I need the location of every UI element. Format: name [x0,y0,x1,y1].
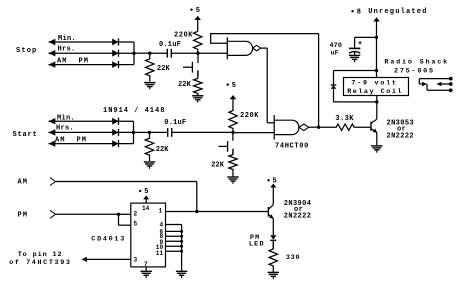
svg-text:2: 2 [134,211,138,218]
label 22K R4 [156,146,170,154]
svg-text:LED: LED [249,241,265,249]
node pin 8 bus junction [180,235,183,238]
svg-text:Unregulated: Unregulated [368,8,427,16]
touch contact stop: plate lead [183,66,192,68]
wire Q1 emitter to ground [376,132,378,146]
transistor Q1 base bar [370,122,372,131]
label 0.1uF C2 [164,119,186,127]
svg-text:1N914 / 4148: 1N914 / 4148 [103,107,165,115]
ground below R8 [268,272,279,279]
wire relay coil bottom lead [376,96,378,102]
connector PM chevron [50,210,56,218]
wire start Min line [49,120,134,122]
svg-text:275-005: 275-005 [394,67,435,75]
label 22K R1 [157,65,171,73]
svg-text:3: 3 [134,257,138,264]
relay coil K1 box [344,78,409,96]
node pin 6 bus junction [180,230,183,233]
ground below R1 [144,83,155,90]
label 2N2222 (Q1) [387,133,414,141]
label 22K R6 [211,162,225,170]
diode D7 relay clamp [331,85,337,89]
touch contact start: lower lead [232,149,234,155]
wire relay bottom [334,101,377,103]
svg-text:Hrs.: Hrs. [58,45,76,53]
wire U1B output to R7 [319,126,336,128]
wire stop Hrs line [49,52,135,54]
svg-text:of 74HCT393: of 74HCT393 [9,259,71,267]
label 2N3904 [284,200,311,208]
resistor R4 22K (start pulldown) [145,132,153,161]
power +5 arrow (Q2) [270,184,276,205]
diode D5 (start Hrs) [112,129,118,136]
label 7-9 volt [351,79,397,87]
node 470uF junction [375,36,378,39]
label or (Q2) [294,206,303,214]
touch contact stop: lower lead [197,70,199,77]
node stop gate input node [196,52,199,55]
wire AM line [56,181,197,183]
node pin 10 bus junction [180,245,183,248]
label Start [13,131,38,139]
label PM input [18,212,28,220]
arrowhead start Hrs input [49,129,56,135]
node Q1 collector junction [375,100,378,103]
label Min. (stop) [58,35,76,43]
wire U1B feedback vertical [318,34,320,128]
svg-text:5: 5 [196,7,200,15]
wire pin 10 to bus [166,245,182,247]
transistor Q1 collector [371,102,377,123]
label Hrs. (start) [56,125,74,133]
node stop bus junction [132,52,135,55]
label Min. (start) [57,114,75,122]
power +8 arrow [373,17,380,21]
wire PM line to pin2 [56,213,131,215]
op-amp U1B NAND output bubble [299,124,309,131]
node start R4 tap [148,131,151,134]
svg-text:22K: 22K [178,81,192,89]
node stop R1 tap [148,52,151,55]
label 1N914 / 4148 [103,107,165,115]
resistor R1 22K (stop pulldown) [146,53,154,81]
svg-text:Start: Start [13,131,38,139]
arrowhead stop AM/PM input [49,61,56,67]
op-amp U1A NAND gate body [227,41,252,55]
capacitor C3 470uF [349,48,360,53]
pin 3 label [134,257,138,264]
node relay contact terminal 3 [449,88,453,92]
svg-text:8: 8 [357,9,361,17]
wire stop input bus [133,42,135,65]
resistor R8 330 [269,240,277,272]
label 74HCT00 [275,142,309,150]
wire start node to U1B input [233,132,274,134]
wire Q2 emitter to LED [272,218,274,235]
label +5 (start) [227,82,236,90]
svg-text:11: 11 [156,250,164,257]
wire C2 to start node [172,131,233,133]
wire R1 node to C1 [150,52,168,54]
label 3.3K R7 [335,115,354,123]
wire pin 9 to bus [166,240,182,242]
power +5 arrow (start pullup) [230,95,237,108]
node relay contact terminal 2 [449,82,453,86]
svg-text:22K: 22K [211,162,225,170]
svg-text:Hrs.: Hrs. [56,125,74,133]
node pin 9 bus junction [180,240,183,243]
svg-text:AM: AM [18,179,28,187]
wire U1B output feedback to U1A input [211,34,319,44]
pin 14 label [142,205,150,212]
pin 9 label [160,239,164,246]
svg-text:220K: 220K [174,32,193,40]
svg-text:uF: uF [331,50,339,58]
ground below R4 [144,162,155,169]
label Relay Coil [347,88,403,96]
label 275-005 [394,67,435,75]
svg-text:0.1uF: 0.1uF [164,119,186,127]
svg-text:Stop: Stop [16,47,37,55]
svg-text:2N2222: 2N2222 [387,133,414,141]
wire start AM/PM line [49,143,134,145]
touch contact start: plate lead [219,145,228,147]
ground below pin bus [176,271,187,278]
label PM LED [249,234,265,249]
pin 5 label [134,221,138,228]
wire diode branch lower [333,89,335,102]
op-amp U1B NAND gate input bar [273,115,275,140]
op-amp U1A NAND output bubble [253,45,261,51]
svg-text:330: 330 [286,254,300,262]
wire pin 11 to bus [166,250,182,252]
wire pin 1 to Q2 base [166,211,269,213]
pin 2 label [134,211,138,218]
transistor Q2 emitter [268,214,273,219]
label +5 (Q2) [267,178,276,186]
svg-text:14: 14 [142,205,150,212]
svg-text:1: 1 [159,208,163,215]
wire pin 3 output [83,258,131,260]
node start gate input node [231,131,234,134]
ground below R6 [227,177,238,184]
wire stop node to U1A input [198,52,227,54]
label 2N2222 (Q2) [284,212,311,220]
resistor R6 22K (start touch bias) [229,149,237,177]
diode D3 (stop AM/PM) [112,61,118,68]
wire U1A output down to U1B input [267,48,274,123]
label AM PM (stop) [57,57,89,65]
arrowhead start Min input [49,118,56,124]
transistor Q2 collector [268,205,273,210]
wire start Hrs line [49,131,134,133]
power +5 arrow (stop pullup) [194,16,201,29]
arrowhead stop Hrs input [49,50,56,56]
relay contact NC arrow [436,82,450,86]
label +5 (stop) [190,7,200,15]
resistor R3 22K (stop touch bias) [194,70,202,95]
label AM input [18,179,28,187]
label 0.1uF C1 [159,41,181,49]
touch contact start: plate bar [227,141,229,152]
arrowhead start AM/PM input [49,140,56,146]
wire relay top rail [334,70,377,72]
wire relay coil top lead [376,71,378,78]
label AM PM (start) [55,137,87,145]
transistor Q1 emitter [371,128,377,133]
pin 1 label [159,208,163,215]
op-amp U1B NAND gate body [274,120,299,134]
svg-text:5: 5 [144,188,148,196]
wire start input bus [133,121,135,143]
svg-text:5: 5 [134,221,138,228]
diode D2 (stop Hrs) [112,50,118,57]
wire start bus to R4 [134,131,150,133]
wire stop bus to R1 [134,52,150,54]
diode D6 (start AM/PM) [112,140,118,147]
label To pin 12 [18,251,63,259]
svg-text:Relay Coil: Relay Coil [347,88,403,96]
label 470 uF [330,42,343,57]
label CD4013 [91,236,126,244]
svg-text:220K: 220K [240,112,259,120]
resistor R2 220K (stop pullup) [194,28,202,54]
label or (Q1) [397,125,406,133]
svg-text:5: 5 [232,82,236,90]
ground below Q1 [371,146,382,153]
label Stop [16,47,37,55]
capacitor C2 0.1uF (start) [168,128,172,137]
pin 8 label [160,233,164,240]
svg-text:22K: 22K [157,65,171,73]
wire R7 to Q1 base [354,126,371,128]
wire C1 to stop node [171,52,198,54]
node start bus junction [132,131,135,134]
node AM/pin1 junction [195,210,198,213]
wire U1A output [261,47,267,49]
pin 11 label [156,250,164,257]
pin 7 label [144,261,148,268]
wire C3 bottom lead [354,52,356,55]
wire grounded-pin bus [181,225,183,272]
label +5 (CD4013) [139,188,148,196]
wire diode branch upper [333,71,335,86]
power +5 arrow (pin 14) [143,195,149,203]
node relay contact terminal 1 [449,77,453,81]
label of 74HCT393 [9,259,71,267]
ic U2 CD4013 box [131,203,166,267]
label 220K R2 [174,32,193,40]
pin 10 label [156,244,164,251]
diode D4 (start Min) [112,118,118,125]
op-amp U1A NAND gate input bar [226,37,228,59]
touch contact start: upper lead [232,132,234,140]
label 330 R8 [286,254,300,262]
wire stop Min line [49,41,135,43]
ground below C3 [349,55,360,62]
wire R4 node to C2 [150,131,168,133]
wire pin 8 to bus [166,235,182,237]
resistor R7 3.3K [336,124,354,130]
svg-text:Radio Shack: Radio Shack [384,58,449,66]
wire stop AM/PM line [49,64,135,66]
diode LED1 PM LED [270,235,276,240]
wire C3 top lead [354,37,356,48]
wire PM jog to pin5 [119,214,131,225]
label Hrs. (stop) [58,45,76,53]
arrowhead pin 3 output [81,257,87,262]
svg-text:7: 7 [144,261,148,268]
relay contact common wire [419,79,450,84]
pin 4 label [160,221,164,228]
diode D1 (stop Min) [112,38,118,45]
label 2N3053 [387,120,414,128]
transistor Q2 base bar [267,207,269,217]
wire AM down [196,182,198,212]
relay contact pole arrow [422,82,451,91]
touch contact stop: plate bar [191,62,193,73]
wire pin 6 to bus [166,230,182,232]
svg-text:CD4013: CD4013 [91,236,126,244]
svg-text:22K: 22K [156,146,170,154]
pin 6 label [160,228,164,235]
resistor R5 220K (start pullup) [229,107,237,133]
label 22K R3 [178,81,192,89]
wire to C3 [355,36,377,38]
label 220K R5 [240,112,259,120]
svg-text:74HCT00: 74HCT00 [275,142,309,150]
label Radio Shack [384,58,449,66]
svg-text:PM: PM [18,212,28,220]
ground below pin 7 [141,271,152,278]
svg-text:3.3K: 3.3K [335,115,354,123]
node pin 11 bus junction [180,250,183,253]
wire LED to R8 [272,240,274,249]
node PM junction [117,213,120,216]
wire +8 rail [376,21,378,71]
svg-text:0.1uF: 0.1uF [159,41,181,49]
ground below R3 [192,96,203,103]
svg-text:2N2222: 2N2222 [284,212,311,220]
arrowhead stop Min input [49,39,56,45]
svg-text:7-9 volt: 7-9 volt [351,79,397,87]
label +8 Unregulated [351,8,427,17]
capacitor C1 0.1uF (stop) [167,49,171,58]
node relay top junction [375,69,378,72]
touch contact stop: upper lead [197,53,199,63]
wire U1B output [309,126,319,128]
wire pin 4 to bus [166,224,182,226]
connector AM chevron [50,178,56,186]
wire pin 7 lead [145,267,147,271]
node U1B output junction [317,126,320,129]
label + (C3 polarity) [358,41,361,44]
